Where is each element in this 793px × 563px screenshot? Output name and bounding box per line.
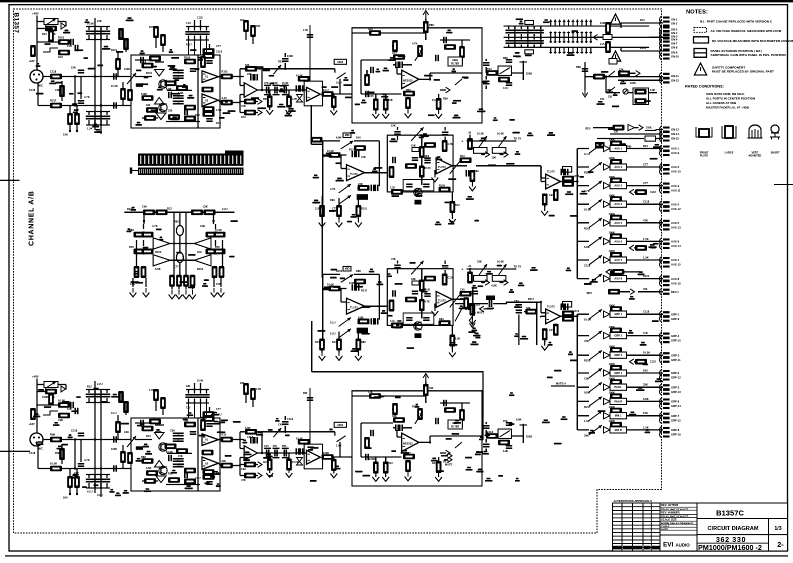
svg-text:R99: R99 (474, 170, 479, 173)
svg-text:GN-3: GN-3 (671, 28, 678, 32)
svg-text:10.0K: 10.0K (111, 84, 118, 88)
svg-text:330: 330 (245, 63, 250, 67)
svg-text:N1 : PART CAN BE REPLACED WITH: N1 : PART CAN BE REPLACED WITH VERSION C (700, 20, 773, 24)
svg-text:R12: R12 (349, 148, 354, 152)
svg-text:TL072: TL072 (547, 304, 555, 308)
svg-text:100K: 100K (609, 376, 615, 380)
svg-text:1.5K: 1.5K (584, 419, 590, 423)
svg-text:DATE: DATE (661, 527, 668, 531)
svg-text:15K: 15K (63, 133, 68, 137)
svg-text:0.1U: 0.1U (503, 87, 508, 90)
svg-text:C99: C99 (549, 194, 554, 197)
svg-text:CIRCUIT DIAGRAM: CIRCUIT DIAGRAM (708, 526, 759, 532)
svg-text:R56: R56 (303, 392, 308, 395)
svg-text:100K: 100K (609, 138, 615, 142)
svg-text:C99: C99 (200, 224, 205, 228)
svg-text:47K: 47K (361, 155, 366, 159)
svg-text:PAN L: PAN L (614, 385, 622, 389)
svg-text:GRP-15: GRP-15 (671, 418, 681, 422)
svg-text:C45: C45 (460, 288, 465, 292)
svg-text:R56: R56 (55, 451, 60, 455)
svg-text:R150: R150 (439, 185, 446, 188)
svg-text:GN-15: GN-15 (671, 137, 679, 141)
svg-text:R99: R99 (439, 318, 444, 321)
svg-text:R12: R12 (643, 144, 648, 148)
svg-text:15K: 15K (411, 144, 416, 148)
svg-text:GN-8: GN-8 (671, 46, 678, 50)
svg-text:R101: R101 (58, 36, 65, 40)
svg-text:0.1U: 0.1U (336, 81, 342, 85)
svg-text:GRP 2: GRP 2 (614, 334, 622, 338)
svg-text:100K: 100K (111, 447, 117, 451)
svg-text:C118: C118 (29, 451, 36, 455)
svg-text:2.2U: 2.2U (97, 382, 103, 386)
svg-text:2-: 2- (777, 540, 784, 549)
svg-text:FILTER: FILTER (451, 63, 459, 66)
svg-text:6.8K: 6.8K (643, 397, 649, 401)
svg-text:100K: 100K (349, 281, 355, 285)
svg-text:GRP-5: GRP-5 (671, 385, 680, 389)
svg-text:+: + (462, 140, 464, 144)
svg-text:C118: C118 (247, 435, 254, 439)
svg-text:GN-7: GN-7 (671, 42, 678, 46)
svg-text:6.8K: 6.8K (516, 418, 522, 422)
svg-text:GN-9: GN-9 (671, 51, 678, 55)
svg-text:0.1U: 0.1U (330, 321, 336, 325)
svg-text:6.8K: 6.8K (584, 245, 590, 249)
svg-text:GN-11: GN-11 (671, 74, 679, 78)
svg-text:AUX-5: AUX-5 (671, 221, 680, 225)
svg-text:6.8K: 6.8K (245, 426, 251, 430)
svg-text:C118: C118 (197, 17, 203, 20)
svg-text:AC VOLTAGE WHEN N1, MEASURED W: AC VOLTAGE WHEN N1, MEASURED WITH DVM (711, 29, 782, 33)
svg-text:250B: 250B (526, 72, 532, 76)
svg-text:GN-6: GN-6 (671, 38, 678, 42)
svg-text:4.7K: 4.7K (149, 389, 154, 392)
svg-text:1.5K: 1.5K (643, 237, 649, 241)
svg-text:C118: C118 (287, 417, 294, 421)
svg-text:0.1U: 0.1U (97, 493, 103, 497)
svg-text:15K: 15K (388, 98, 393, 102)
svg-text:100K: 100K (609, 303, 615, 307)
svg-text:C118: C118 (71, 429, 78, 433)
svg-text:330: 330 (222, 459, 227, 463)
svg-text:MOUNTED: MOUNTED (749, 155, 762, 158)
svg-text:AUX-14: AUX-14 (671, 244, 681, 248)
svg-text:1K0: 1K0 (216, 121, 221, 125)
svg-text:R150: R150 (184, 56, 191, 60)
svg-text:330: 330 (643, 287, 648, 291)
svg-text:2.2U: 2.2U (390, 187, 395, 190)
svg-text:15K: 15K (256, 25, 261, 28)
svg-text:R12: R12 (388, 461, 393, 465)
svg-text:1.5K: 1.5K (303, 29, 308, 32)
svg-text:EVI: EVI (663, 542, 674, 549)
svg-text:R101: R101 (332, 341, 339, 344)
svg-text:330: 330 (429, 386, 434, 390)
svg-text:C99: C99 (584, 377, 589, 381)
svg-text:4.7K: 4.7K (152, 224, 158, 228)
svg-text:1K0: 1K0 (643, 369, 648, 373)
svg-text:0.1U: 0.1U (186, 22, 191, 25)
svg-text:R88: R88 (503, 57, 508, 60)
svg-text:4.7K: 4.7K (412, 42, 418, 46)
svg-text:AUX 4: AUX 4 (614, 202, 622, 206)
svg-text:AUX-6: AUX-6 (671, 240, 680, 244)
svg-text:C118: C118 (650, 361, 656, 364)
svg-text:22K: 22K (203, 205, 208, 209)
svg-text:TL072: TL072 (350, 172, 358, 176)
svg-text:47K: 47K (391, 257, 396, 261)
svg-text:10.0K: 10.0K (197, 380, 204, 383)
svg-text:33K: 33K (186, 385, 191, 388)
svg-text:22K: 22K (240, 382, 245, 385)
svg-text:C45: C45 (549, 329, 554, 332)
svg-text:C118: C118 (50, 70, 57, 74)
svg-text:C118: C118 (29, 88, 36, 92)
svg-text:100K: 100K (609, 344, 615, 348)
svg-text:AUX-15: AUX-15 (671, 263, 681, 267)
svg-text:SCALE SIZE: SCALE SIZE (661, 518, 677, 522)
svg-text:R217: R217 (584, 405, 591, 409)
svg-text:+B: +B (468, 265, 471, 268)
svg-text:AUX 2: AUX 2 (614, 165, 622, 169)
svg-text:6.8K: 6.8K (155, 267, 161, 271)
svg-text:PM1000/PM1600 -2: PM1000/PM1600 -2 (698, 543, 762, 552)
svg-text:ADDITIONAL GAIN WITH PANEL IN: ADDITIONAL GAIN WITH PANEL IN POS. POSIT… (711, 53, 787, 57)
svg-text:GRP-10: GRP-10 (671, 338, 681, 342)
svg-text:100K: 100K (630, 82, 636, 85)
svg-text:1K0: 1K0 (63, 496, 68, 500)
svg-text:15K: 15K (391, 124, 396, 128)
svg-text:4.7K: 4.7K (292, 98, 297, 101)
svg-text:4.7K: 4.7K (84, 95, 90, 99)
svg-text:2.2U: 2.2U (330, 332, 336, 336)
svg-text:2362: 2362 (337, 423, 343, 427)
svg-text:MASTER FADER LVL AT +4DB: MASTER FADER LVL AT +4DB (706, 106, 750, 110)
svg-text:10.0K: 10.0K (296, 437, 303, 441)
svg-text:TL072: TL072 (438, 299, 446, 303)
svg-text:10.0K: 10.0K (584, 318, 591, 322)
svg-text:R217: R217 (528, 297, 535, 301)
svg-text:10.0K: 10.0K (497, 132, 504, 136)
svg-text:ALL FADERS AT 0DB: ALL FADERS AT 0DB (706, 101, 737, 105)
svg-text:GRP-7: GRP-7 (671, 414, 680, 418)
svg-text:C99: C99 (142, 205, 147, 209)
svg-text:R88: R88 (576, 65, 581, 69)
svg-text:100K: 100K (287, 54, 293, 58)
svg-text:MIC: MIC (38, 84, 43, 88)
svg-text:SHORT: SHORT (771, 152, 780, 155)
svg-text:15K: 15K (643, 411, 648, 415)
svg-text:100K: 100K (609, 212, 615, 216)
svg-text:1K0: 1K0 (241, 115, 246, 119)
svg-text:R217: R217 (278, 60, 285, 64)
svg-text:47K: 47K (241, 104, 246, 108)
svg-text:TL072: TL072 (547, 170, 555, 174)
svg-text:R217: R217 (432, 461, 439, 465)
svg-text:ALL PORTS IN CENTER POSITION: ALL PORTS IN CENTER POSITION (706, 97, 755, 101)
svg-text:10.0K: 10.0K (296, 74, 303, 78)
svg-text:0.1U: 0.1U (584, 152, 590, 156)
svg-text:1K0: 1K0 (197, 250, 202, 254)
svg-text:10.0K: 10.0K (50, 462, 57, 466)
svg-text:GRP 4: GRP 4 (614, 371, 622, 375)
svg-text:33K: 33K (477, 260, 482, 264)
svg-text:1K0: 1K0 (356, 136, 361, 140)
svg-text:100K: 100K (646, 127, 652, 130)
svg-text:MUTE: MUTE (445, 463, 453, 467)
svg-text:330: 330 (146, 103, 151, 107)
svg-text:ALTERATIONS APPROVALS: ALTERATIONS APPROVALS (614, 499, 653, 503)
svg-text:100K: 100K (609, 362, 615, 366)
svg-text:1K0: 1K0 (263, 461, 268, 464)
svg-text:MUST BE REPLACED BY ORIGINAL P: MUST BE REPLACED BY ORIGINAL PART (712, 70, 774, 74)
svg-text:R217: R217 (50, 99, 57, 103)
svg-text:AUX-12: AUX-12 (671, 207, 681, 211)
svg-text:C118: C118 (584, 264, 591, 268)
svg-text:R12: R12 (455, 204, 460, 207)
svg-text:AUX-3: AUX-3 (671, 184, 680, 188)
svg-text:GRP-8: GRP-8 (671, 428, 680, 432)
svg-text:LARGE: LARGE (725, 152, 734, 155)
svg-text:TL072: TL072 (438, 165, 446, 169)
svg-text:MIX R: MIX R (615, 428, 622, 432)
svg-text:AUX-7: AUX-7 (671, 258, 680, 262)
svg-text:GRP-14: GRP-14 (671, 404, 681, 408)
svg-text:100K: 100K (609, 193, 615, 197)
svg-text:R99: R99 (50, 433, 55, 437)
svg-text:R12: R12 (460, 154, 465, 158)
svg-text:0.1U: 0.1U (111, 411, 117, 415)
svg-text:GRP-11: GRP-11 (671, 358, 681, 362)
svg-text:B1357C: B1357C (716, 508, 744, 517)
svg-text:GRP-13: GRP-13 (671, 390, 681, 394)
svg-text:AUX-2: AUX-2 (671, 165, 680, 169)
svg-text:GRP-16: GRP-16 (671, 433, 681, 437)
svg-text:C77: C77 (643, 181, 648, 185)
svg-text:AUX 5: AUX 5 (614, 221, 622, 225)
svg-text:33K: 33K (584, 433, 589, 437)
svg-text:15K: 15K (216, 282, 221, 286)
svg-text:CHANNEL A/B: CHANNEL A/B (29, 190, 36, 246)
svg-text:MIX L: MIX L (615, 414, 622, 418)
svg-text:6.8K: 6.8K (358, 316, 364, 320)
svg-text:GRP-12: GRP-12 (671, 376, 681, 380)
svg-text:C99: C99 (124, 430, 129, 434)
svg-text:1K0: 1K0 (58, 55, 63, 59)
svg-text:1.5K: 1.5K (643, 256, 649, 260)
svg-text:RATED CONDITIONS:: RATED CONDITIONS: (685, 85, 724, 89)
svg-text:GRP-2: GRP-2 (671, 334, 680, 338)
svg-text:15K: 15K (600, 98, 605, 101)
svg-text:250B: 250B (526, 435, 532, 439)
svg-text:AUX 8: AUX 8 (614, 277, 622, 281)
svg-text:GN-1: GN-1 (671, 18, 678, 22)
svg-text:+48V: +48V (32, 375, 39, 379)
svg-text:10.0K: 10.0K (282, 82, 289, 85)
svg-text:C77: C77 (216, 407, 221, 411)
svg-text:PAN R: PAN R (614, 399, 622, 403)
svg-text:R217: R217 (186, 44, 192, 47)
svg-text:15K: 15K (71, 66, 76, 70)
svg-text:AUDIO: AUDIO (676, 542, 691, 547)
svg-text:C45: C45 (67, 407, 72, 411)
svg-text:6.8K: 6.8K (146, 466, 152, 470)
svg-text:AUX 7: AUX 7 (614, 258, 622, 262)
svg-text:100K: 100K (609, 156, 615, 160)
svg-text:R150: R150 (315, 341, 322, 344)
svg-text:AUX-9: AUX-9 (671, 151, 680, 155)
svg-text:NE5532: NE5532 (403, 79, 413, 83)
svg-text:1K0: 1K0 (368, 27, 373, 31)
svg-text:MID: MID (345, 133, 350, 137)
svg-text:1K0: 1K0 (240, 19, 245, 22)
svg-text:R56: R56 (263, 98, 268, 101)
svg-text:R88: R88 (174, 221, 179, 224)
svg-text:C77: C77 (216, 44, 221, 48)
svg-text:4.7K: 4.7K (330, 187, 336, 191)
svg-text:100K: 100K (609, 325, 615, 329)
svg-text:R101: R101 (222, 70, 229, 74)
svg-text:NOTES:: NOTES: (686, 10, 708, 16)
svg-text:TO FX: TO FX (514, 265, 522, 269)
svg-text:1.5K: 1.5K (643, 425, 649, 429)
svg-text:C99: C99 (514, 300, 519, 303)
svg-text:22K: 22K (97, 19, 102, 23)
svg-text:47K: 47K (584, 339, 589, 343)
svg-text:R88: R88 (429, 23, 434, 27)
svg-text:1.5K: 1.5K (216, 108, 222, 112)
svg-text:TO FX: TO FX (514, 137, 522, 141)
svg-text:1.5K: 1.5K (455, 338, 460, 341)
svg-text:R88: R88 (361, 341, 366, 344)
svg-text:2.2U: 2.2U (222, 96, 228, 100)
svg-text:MUTE-A: MUTE-A (556, 382, 566, 386)
svg-text:GN-14: GN-14 (671, 132, 679, 136)
svg-text:4.7K: 4.7K (84, 458, 90, 462)
svg-text:R101: R101 (361, 208, 368, 211)
svg-text:C45: C45 (278, 423, 283, 427)
svg-text:+: + (462, 268, 464, 272)
svg-text:MIC: MIC (38, 447, 43, 451)
svg-text:C99: C99 (55, 88, 60, 92)
svg-text:R88: R88 (356, 269, 361, 273)
svg-text:2.2U: 2.2U (600, 42, 606, 46)
svg-text:C45: C45 (264, 445, 269, 448)
svg-text:R217: R217 (460, 298, 467, 301)
svg-text:10.0K: 10.0K (497, 260, 504, 264)
svg-text:0.1U: 0.1U (323, 88, 329, 92)
svg-text:0.1U: 0.1U (87, 490, 93, 494)
svg-text:1.5K: 1.5K (256, 388, 261, 391)
svg-text:6.8K: 6.8K (600, 21, 606, 25)
svg-text:100K: 100K (141, 92, 147, 96)
svg-text:C45: C45 (186, 407, 191, 410)
svg-text:R101: R101 (584, 226, 591, 230)
svg-text:6.8K: 6.8K (336, 136, 342, 140)
svg-text:REV. NUMBER: REV. NUMBER (661, 510, 680, 514)
svg-text:R56: R56 (129, 245, 134, 249)
svg-text:PLATE: PLATE (700, 155, 708, 158)
svg-text:AUX-8: AUX-8 (671, 277, 680, 281)
svg-text:15K: 15K (491, 156, 496, 160)
svg-text:2362: 2362 (337, 60, 343, 64)
svg-text:C99: C99 (58, 418, 63, 422)
svg-text:GN-4: GN-4 (671, 31, 678, 35)
svg-text:33K: 33K (411, 277, 416, 281)
svg-text:REV-1: REV-1 (671, 290, 679, 294)
svg-text:22K: 22K (247, 72, 252, 76)
svg-text:C118: C118 (643, 310, 650, 314)
svg-text:100K: 100K (584, 391, 590, 395)
svg-text:C118: C118 (216, 50, 223, 54)
svg-text:10.0K: 10.0K (327, 283, 334, 287)
svg-text:100K: 100K (609, 175, 615, 179)
svg-text:R56: R56 (406, 89, 411, 92)
svg-text:R99: R99 (443, 97, 448, 101)
svg-text:100K: 100K (42, 395, 48, 399)
svg-text:1.5K: 1.5K (336, 444, 342, 448)
svg-text:AUX 3: AUX 3 (614, 184, 622, 188)
svg-text:R217: R217 (361, 289, 368, 293)
svg-text:22K: 22K (358, 182, 363, 186)
svg-text:C45: C45 (643, 331, 648, 335)
svg-text:C77: C77 (174, 266, 179, 269)
svg-text:TL072: TL072 (350, 306, 358, 310)
svg-text:330: 330 (614, 131, 619, 134)
svg-text:R101: R101 (146, 71, 153, 75)
svg-text:AUX 6: AUX 6 (614, 239, 622, 243)
svg-text:AUX-4: AUX-4 (671, 202, 680, 206)
svg-text:47K: 47K (643, 218, 648, 222)
svg-text:R12: R12 (487, 67, 492, 71)
svg-text:B1357: B1357 (13, 13, 20, 34)
svg-text:GN-2: GN-2 (671, 22, 678, 26)
svg-text:NE5532: NE5532 (403, 442, 413, 446)
svg-text:330: 330 (608, 96, 613, 99)
svg-text:REV: REV (586, 127, 591, 130)
svg-text:15K: 15K (503, 420, 508, 423)
svg-text:GRP-4: GRP-4 (671, 371, 680, 375)
svg-text:1/3: 1/3 (774, 526, 781, 532)
svg-text:15K: 15K (178, 454, 183, 458)
svg-text:2.2U: 2.2U (222, 207, 228, 211)
svg-text:2.2U: 2.2U (315, 208, 320, 211)
svg-text:10.0K: 10.0K (643, 351, 650, 355)
svg-text:AUX-1: AUX-1 (671, 147, 680, 151)
svg-text:100K: 100K (124, 67, 130, 71)
svg-text:R12: R12 (575, 310, 580, 313)
svg-text:4.7K: 4.7K (425, 301, 430, 304)
svg-text:330: 330 (168, 109, 173, 113)
svg-text:R12: R12 (42, 32, 47, 36)
svg-text:R101: R101 (197, 267, 204, 271)
svg-text:R150: R150 (640, 47, 647, 50)
svg-text:100K: 100K (323, 451, 329, 455)
svg-text:1K0: 1K0 (640, 19, 645, 22)
svg-text:AUX-11: AUX-11 (671, 188, 681, 192)
svg-text:R150: R150 (155, 250, 162, 254)
svg-text:AUX-10: AUX-10 (671, 170, 681, 174)
svg-text:+B: +B (468, 132, 471, 135)
svg-text:MID: MID (345, 267, 350, 271)
svg-text:+18V: +18V (29, 422, 35, 426)
svg-text:R12: R12 (167, 207, 172, 211)
svg-text:33K: 33K (643, 383, 648, 387)
svg-text:R88: R88 (141, 455, 146, 459)
svg-text:47K: 47K (273, 445, 278, 448)
